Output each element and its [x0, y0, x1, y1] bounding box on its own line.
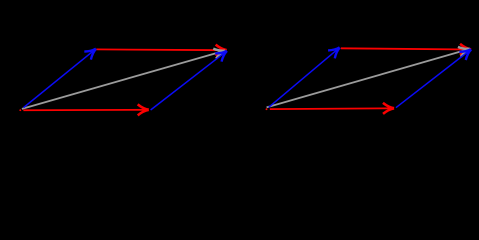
- left diagram: vector b (blue) from origin O to B: [24, 49, 96, 108]
- right diagram: vector a (red) translated, from B' to apex C' along top: [341, 48, 471, 49]
- left diagram: vector a (red arrow) from origin O to A along bottom: [23, 109, 148, 111]
- left diagram: resultant a+b (gray) from O to apex C: [22, 51, 225, 109]
- right diagram: vector b (blue) translated, from A' to apex C': [396, 50, 471, 108]
- right diagram: vector a (red arrow) from origin O' to A' along bottom: [270, 107, 394, 110]
- right diagram: vector b (blue) from origin O' to B': [269, 48, 340, 107]
- node O: origin dot of left diagram: [19, 109, 21, 111]
- left diagram: vector b (blue) translated, from A to apex C: [151, 51, 227, 110]
- node O': origin dot of right diagram: [266, 108, 268, 110]
- right diagram: resultant a+b (gray) from O' to apex C': [267, 49, 470, 107]
- left diagram: vector a (red) translated, from B to apex C along top: [96, 48, 226, 51]
